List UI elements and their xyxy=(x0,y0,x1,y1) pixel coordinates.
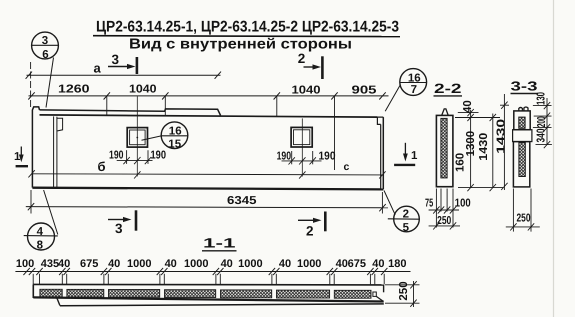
svg-text:1000: 1000 xyxy=(184,258,208,270)
section mark 2 (bottom) xyxy=(298,212,325,232)
svg-text:б: б xyxy=(98,159,106,174)
svg-text:3: 3 xyxy=(42,35,48,47)
balloon 2/5 xyxy=(384,191,419,232)
section 2-2 bottom dims 75/100/250 xyxy=(429,189,460,230)
svg-text:1000: 1000 xyxy=(127,258,151,270)
section 2-2 lifting loop xyxy=(442,109,449,116)
opening 2 (square) xyxy=(291,118,312,176)
left rib double line xyxy=(54,116,63,187)
dimension line a (top) xyxy=(26,62,221,109)
section 2-2 right dim chains xyxy=(455,109,503,191)
svg-text:250: 250 xyxy=(398,281,410,300)
section 3-3 loop prongs xyxy=(519,108,523,111)
section mark 3 (bottom) xyxy=(108,210,136,230)
section mark 1 (left) xyxy=(16,147,28,167)
svg-text:40: 40 xyxy=(279,258,291,270)
svg-text:190: 190 xyxy=(109,150,124,162)
panel top ledge line (left part) xyxy=(40,109,221,116)
section 3-3 right dim chain 130/200/340 xyxy=(533,98,552,148)
svg-text:130: 130 xyxy=(536,92,548,105)
svg-text:2: 2 xyxy=(306,223,314,238)
left rib notch xyxy=(57,118,63,131)
svg-text:7: 7 xyxy=(411,84,417,96)
dimension row (1260 1040 1040 905) xyxy=(28,92,388,99)
section 1-1 dim row texts xyxy=(16,258,407,270)
svg-text:250: 250 xyxy=(517,213,531,225)
opening 2 axis line xyxy=(301,118,303,176)
section 3-3 bottom dim 250 xyxy=(506,189,540,232)
section 3-3 middle band xyxy=(513,130,532,142)
svg-text:40: 40 xyxy=(372,258,384,270)
svg-text:1040: 1040 xyxy=(129,83,157,95)
svg-text:1430: 1430 xyxy=(496,119,508,154)
svg-text:1000: 1000 xyxy=(297,258,321,270)
section 3-3 lower hatched core xyxy=(519,143,525,177)
balloon 16/15 xyxy=(142,122,188,149)
section 1-1 bar top line xyxy=(33,283,383,286)
opening 2 dims 190/190 xyxy=(282,151,322,179)
svg-text:40: 40 xyxy=(462,100,474,113)
svg-text:3: 3 xyxy=(112,52,120,67)
panel right edge outer line xyxy=(382,117,384,189)
svg-text:75: 75 xyxy=(425,198,434,210)
svg-text:100: 100 xyxy=(16,258,34,270)
svg-text:40: 40 xyxy=(108,258,120,270)
section 1-1 bar left edge xyxy=(32,284,34,298)
svg-text:160: 160 xyxy=(454,153,466,172)
section mark 3 (top) xyxy=(108,57,137,74)
section 1-1 bottom left step xyxy=(57,298,60,305)
svg-text:8: 8 xyxy=(37,239,44,251)
svg-text:16: 16 xyxy=(408,73,421,85)
svg-text:190: 190 xyxy=(319,151,336,163)
svg-text:3: 3 xyxy=(115,221,123,236)
section 3-3 lower body xyxy=(513,142,529,187)
section 1-1 right end xyxy=(373,285,384,302)
svg-text:5: 5 xyxy=(403,222,410,234)
balloon 3/6 xyxy=(31,32,59,107)
svg-text:Вид с внутренней стороны: Вид с внутренней стороны xyxy=(129,36,352,52)
svg-text:180: 180 xyxy=(388,258,406,270)
opening 1 dims 190/190 xyxy=(117,150,153,178)
section mark 1 (right) xyxy=(394,143,415,165)
sheet border line xyxy=(553,0,555,317)
svg-text:200: 200 xyxy=(536,116,548,127)
svg-text:1430: 1430 xyxy=(478,133,490,161)
svg-text:с: с xyxy=(344,161,350,173)
balloon 4/8 xyxy=(24,190,58,250)
section 3-3 left dim chain 1430 xyxy=(500,94,509,190)
svg-text:2-2: 2-2 xyxy=(434,81,462,96)
panel top main surface line xyxy=(40,115,378,117)
svg-text:190: 190 xyxy=(151,150,167,162)
section 1-1 dim ticks xyxy=(23,268,387,275)
opening 1 (square) xyxy=(127,96,147,176)
dimension 6345 xyxy=(26,190,388,214)
panel right edge inner line xyxy=(380,124,382,188)
svg-text:1: 1 xyxy=(411,150,418,162)
svg-text:40: 40 xyxy=(58,258,70,270)
svg-text:2: 2 xyxy=(403,209,409,221)
section 1-1 extension pairs xyxy=(33,274,384,285)
section 3-3 outline: top block xyxy=(513,107,532,187)
section 2-2 hatched core xyxy=(441,118,447,177)
svg-text:16: 16 xyxy=(169,125,182,137)
panel top-right corner notch xyxy=(377,117,383,124)
svg-text:6: 6 xyxy=(42,49,48,61)
svg-text:6345: 6345 xyxy=(227,195,257,207)
svg-text:15: 15 xyxy=(168,138,181,150)
title underline xyxy=(93,35,400,38)
svg-text:1260: 1260 xyxy=(58,83,90,95)
svg-text:675: 675 xyxy=(80,258,98,270)
svg-text:1-1: 1-1 xyxy=(203,236,236,251)
reference line b-c across panel xyxy=(28,170,385,178)
svg-text:40: 40 xyxy=(221,258,233,270)
svg-text:905: 905 xyxy=(352,85,378,97)
svg-text:1300: 1300 xyxy=(465,131,477,157)
svg-text:435: 435 xyxy=(41,258,59,270)
svg-text:340: 340 xyxy=(536,129,548,143)
svg-text:4: 4 xyxy=(37,226,44,238)
opening 1 axis line xyxy=(136,96,138,176)
svg-text:100: 100 xyxy=(455,198,471,210)
svg-text:1040: 1040 xyxy=(292,85,321,97)
svg-text:190: 190 xyxy=(277,151,292,163)
svg-text:а: а xyxy=(94,60,102,75)
section mark 2 (top) xyxy=(304,56,323,79)
section 3-3 top hatched piece xyxy=(519,117,525,128)
svg-text:ЦР2-63.14.25-1, ЦР2-63.14.25-2: ЦР2-63.14.25-1, ЦР2-63.14.25-2 ЦР2-63.14… xyxy=(96,19,399,36)
panel bottom edge xyxy=(32,188,383,190)
svg-text:2: 2 xyxy=(298,51,306,66)
balloon 16/7 xyxy=(385,69,426,112)
svg-text:3-3: 3-3 xyxy=(511,79,538,94)
section 1-1 lower bottom line xyxy=(60,304,384,306)
svg-text:250: 250 xyxy=(437,215,451,227)
section 1-1 dim line xyxy=(15,271,410,273)
section 2-2 outline xyxy=(436,109,453,187)
svg-text:1000: 1000 xyxy=(238,258,262,270)
section 1-1 bar bottom line xyxy=(33,297,383,301)
section 1-1 hatched segments xyxy=(40,289,371,298)
svg-text:1: 1 xyxy=(14,151,21,163)
svg-text:40: 40 xyxy=(165,258,177,270)
section 1-1 right dim 250 xyxy=(385,281,420,307)
extension lines from dim row to panel top xyxy=(107,96,335,170)
panel outline: left edge + top tab xyxy=(32,107,383,189)
svg-text:675: 675 xyxy=(348,258,366,270)
